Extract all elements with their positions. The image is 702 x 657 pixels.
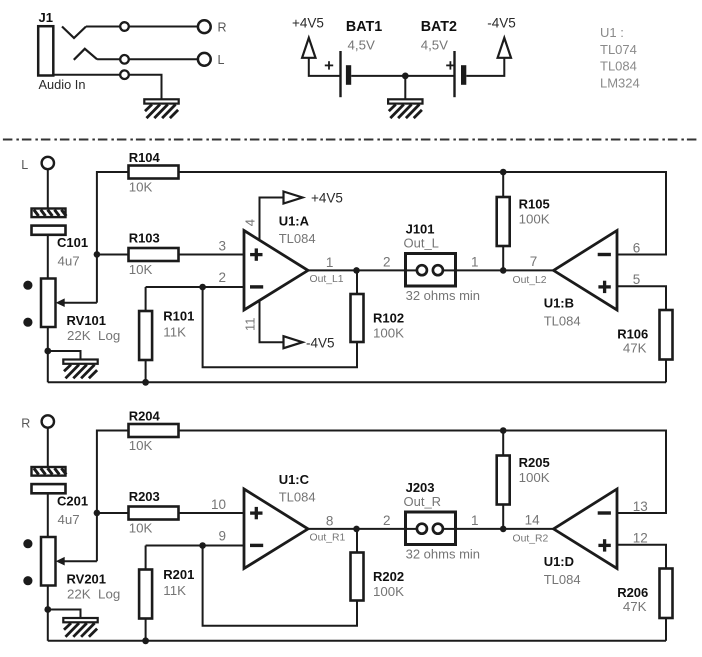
capacitor C201 lower plate bbox=[32, 484, 66, 493]
wire inverting net to R101 bbox=[145, 287, 147, 311]
junction inverting input bbox=[199, 284, 206, 291]
wire J1 ring to terminal L bbox=[97, 58, 198, 60]
power symbol +4V5 bbox=[302, 38, 315, 58]
J1 pin R bbox=[120, 22, 129, 31]
svg-text:11K: 11K bbox=[163, 583, 186, 598]
wire J203 to op-amp U1:D bbox=[456, 528, 554, 530]
svg-text:9: 9 bbox=[218, 529, 226, 544]
dash-dot separator line bbox=[3, 139, 697, 141]
resistor R101 bbox=[139, 311, 152, 360]
BAT2 plus sign bbox=[446, 64, 454, 66]
resistor R102 bbox=[351, 294, 364, 342]
svg-text:TL084: TL084 bbox=[600, 59, 637, 74]
ground at RV101 bbox=[63, 360, 97, 364]
svg-text:10: 10 bbox=[211, 497, 226, 512]
potentiometer RV101 wiper arrow bbox=[61, 302, 97, 304]
J1 ring contact L bbox=[74, 49, 97, 60]
svg-text:10K: 10K bbox=[129, 180, 153, 195]
junction battery center bbox=[402, 73, 409, 80]
svg-text:R202: R202 bbox=[373, 569, 404, 584]
svg-text:2: 2 bbox=[383, 255, 391, 270]
wire R203 to op-amp pin 10 bbox=[179, 512, 245, 514]
svg-text:14: 14 bbox=[525, 512, 541, 527]
svg-text:Out_L2: Out_L2 bbox=[513, 275, 547, 286]
svg-text:7: 7 bbox=[530, 254, 538, 269]
svg-text:R106: R106 bbox=[617, 327, 648, 342]
wire inverting input net bbox=[146, 545, 244, 547]
svg-text:12: 12 bbox=[633, 531, 648, 546]
svg-text:TL084: TL084 bbox=[544, 314, 581, 329]
capacitor C101 hatched plate bbox=[32, 209, 66, 218]
svg-text:+4V5: +4V5 bbox=[292, 16, 324, 31]
svg-text:C201: C201 bbox=[57, 494, 88, 509]
wire input node to R103 bbox=[97, 254, 129, 256]
svg-text:11K: 11K bbox=[163, 325, 186, 340]
junction pot ground branch bbox=[44, 348, 51, 355]
svg-text:U1:C: U1:C bbox=[279, 472, 310, 487]
wire input node to R203 bbox=[97, 512, 129, 514]
power symbol +4V5 at op-amp bbox=[284, 192, 303, 204]
ground at RV201 bbox=[63, 618, 97, 622]
resistor R205 bbox=[497, 456, 510, 505]
op-amp U1:C bbox=[244, 489, 308, 569]
svg-text:R102: R102 bbox=[373, 310, 404, 325]
potentiometer RV201 terminal dot upper bbox=[23, 539, 32, 548]
svg-text:4,5V: 4,5V bbox=[348, 38, 375, 53]
svg-text:R103: R103 bbox=[129, 231, 160, 246]
svg-text:22K Log: 22K Log bbox=[67, 328, 120, 343]
connector J203 pin circle right bbox=[433, 524, 443, 534]
svg-text:L: L bbox=[21, 158, 28, 172]
wire R101 to ground bus bbox=[145, 360, 147, 382]
connector J101 pin circle right bbox=[433, 265, 443, 275]
svg-text:-4V5: -4V5 bbox=[306, 335, 335, 350]
svg-text:R206: R206 bbox=[617, 585, 648, 600]
wire pin 5 to R106 bbox=[617, 286, 666, 310]
svg-text:Out_L1: Out_L1 bbox=[310, 274, 344, 285]
junction output R202 bbox=[353, 526, 360, 533]
svg-text:U1 :: U1 : bbox=[600, 25, 624, 40]
svg-text:4u7: 4u7 bbox=[58, 254, 80, 269]
wire BAT1 to center node bbox=[351, 75, 405, 77]
resistor R206 bbox=[660, 569, 673, 619]
svg-text:+4V5: +4V5 bbox=[311, 191, 343, 206]
svg-text:TL084: TL084 bbox=[279, 231, 316, 246]
svg-text:TL084: TL084 bbox=[279, 490, 316, 505]
wire output junction to R202 bbox=[356, 529, 358, 553]
svg-text:11: 11 bbox=[243, 318, 258, 332]
svg-text:100K: 100K bbox=[519, 470, 550, 485]
resistor R204 bbox=[129, 424, 179, 437]
svg-text:100K: 100K bbox=[519, 212, 550, 227]
svg-text:R104: R104 bbox=[129, 150, 161, 165]
junction input node bbox=[94, 251, 101, 258]
junction output R102 bbox=[353, 267, 360, 274]
wire op-amp pin 11 to -4V5 bbox=[260, 300, 284, 342]
wire top bus R204 to pin 13 bbox=[179, 431, 667, 514]
ground bus wire bbox=[48, 381, 666, 383]
battery BAT2 positive plate bbox=[453, 51, 455, 97]
wire input node up to R204 bbox=[97, 431, 129, 513]
svg-text:4u7: 4u7 bbox=[58, 512, 80, 527]
wire R105 to output node bbox=[502, 172, 504, 270]
junction inverting input bbox=[199, 542, 206, 549]
wire R201 to ground bus bbox=[145, 619, 147, 641]
svg-text:13: 13 bbox=[633, 499, 648, 514]
wire op-amp output to J203 bbox=[308, 528, 406, 530]
wire inverting input net bbox=[146, 286, 244, 288]
junction pot ground branch bbox=[44, 606, 51, 613]
svg-text:R201: R201 bbox=[163, 567, 194, 582]
wire J1 tip to terminal R bbox=[86, 26, 198, 28]
terminal R input circle bbox=[42, 415, 54, 427]
svg-text:3: 3 bbox=[218, 239, 226, 254]
ground at battery bbox=[388, 99, 422, 103]
wire op-amp output to J101 bbox=[308, 269, 406, 271]
wire center node to BAT2 bbox=[405, 75, 454, 77]
svg-text:Out_L: Out_L bbox=[404, 235, 439, 250]
svg-text:LM324: LM324 bbox=[600, 75, 640, 90]
svg-text:-4V5: -4V5 bbox=[487, 16, 516, 31]
junction top bus R105 bbox=[500, 169, 507, 176]
potentiometer RV101 terminal dot lower bbox=[23, 318, 32, 327]
svg-text:J1: J1 bbox=[39, 10, 53, 25]
power symbol -4V5 at op-amp bbox=[284, 336, 303, 348]
svg-text:BAT2: BAT2 bbox=[421, 19, 457, 35]
svg-text:RV101: RV101 bbox=[67, 313, 107, 328]
svg-text:L: L bbox=[218, 53, 225, 67]
svg-text:4,5V: 4,5V bbox=[421, 38, 448, 53]
wire to channel ground symbol bbox=[48, 610, 81, 619]
potentiometer RV101 body bbox=[41, 279, 56, 328]
wire into J203 bbox=[406, 528, 417, 530]
junction input node bbox=[94, 510, 101, 517]
J1 pin L bbox=[120, 55, 129, 64]
resistor R203 bbox=[129, 507, 179, 520]
svg-text:5: 5 bbox=[633, 272, 641, 287]
battery BAT1 positive plate bbox=[339, 51, 341, 97]
wire wiper to input node bus bbox=[96, 513, 98, 561]
resistor R104 bbox=[129, 166, 179, 179]
svg-text:47K: 47K bbox=[623, 599, 647, 614]
connector J1 body bbox=[38, 26, 53, 75]
wire C201 to RV201 bbox=[47, 493, 49, 537]
svg-text:Out_R2: Out_R2 bbox=[513, 533, 549, 544]
svg-text:R101: R101 bbox=[163, 309, 194, 324]
svg-text:10K: 10K bbox=[129, 262, 153, 277]
svg-text:BAT1: BAT1 bbox=[346, 19, 382, 35]
wire into J101 bbox=[406, 269, 417, 271]
svg-text:32 ohms min: 32 ohms min bbox=[406, 547, 480, 562]
BAT1 plus sign bbox=[325, 64, 333, 66]
resistor R105 bbox=[497, 197, 510, 246]
wire RV201 bottom to ground bus bbox=[47, 586, 49, 641]
terminal L bbox=[198, 53, 211, 66]
potentiometer RV201 wiper arrow bbox=[61, 560, 97, 562]
junction top bus R205 bbox=[500, 427, 507, 434]
wire op-amp pin 4 to +4V5 bbox=[260, 198, 284, 241]
svg-text:1: 1 bbox=[326, 255, 334, 270]
wire top bus R104 to pin 6 bbox=[179, 172, 667, 255]
wire inverting node down and under op-amp bbox=[203, 546, 357, 626]
terminal R bbox=[198, 20, 211, 33]
wire R103 to op-amp pin 3 bbox=[179, 254, 245, 256]
J1 tip contact R bbox=[62, 27, 86, 39]
potentiometer RV201 body bbox=[41, 537, 56, 586]
svg-text:1: 1 bbox=[471, 255, 479, 270]
svg-text:22K Log: 22K Log bbox=[67, 587, 120, 602]
svg-text:32 ohms min: 32 ohms min bbox=[406, 288, 480, 303]
potentiometer RV201 terminal dot lower bbox=[23, 576, 32, 585]
svg-text:Out_R1: Out_R1 bbox=[310, 533, 346, 544]
svg-text:RV201: RV201 bbox=[67, 572, 107, 587]
svg-text:R203: R203 bbox=[129, 489, 160, 504]
wire out of J203 bbox=[443, 528, 456, 530]
svg-text:R: R bbox=[21, 417, 30, 431]
svg-text:100K: 100K bbox=[373, 325, 404, 340]
svg-text:U1:A: U1:A bbox=[279, 214, 310, 229]
wire output junction to R102 bbox=[356, 270, 358, 294]
resistor R201 bbox=[139, 570, 152, 619]
svg-text:Out_R: Out_R bbox=[404, 494, 442, 509]
svg-text:R205: R205 bbox=[519, 455, 550, 470]
svg-text:10K: 10K bbox=[129, 438, 153, 453]
wire to channel ground symbol bbox=[48, 351, 81, 360]
wire J1 sleeve bbox=[53, 75, 161, 100]
junction R201 ground bus bbox=[142, 637, 149, 644]
svg-text:100K: 100K bbox=[373, 584, 404, 599]
wire center node to ground bbox=[404, 76, 406, 99]
resistor R202 bbox=[351, 553, 364, 601]
wire inverting node down and under op-amp bbox=[203, 287, 357, 367]
ground at J1 bbox=[144, 99, 178, 103]
connector J203 body bbox=[406, 512, 456, 545]
svg-text:47K: 47K bbox=[623, 341, 647, 356]
junction R101 ground bus bbox=[142, 379, 149, 386]
svg-text:2: 2 bbox=[383, 513, 391, 528]
junction R205 output node bbox=[500, 526, 507, 533]
terminal L input circle bbox=[42, 157, 54, 169]
svg-text:8: 8 bbox=[326, 514, 334, 529]
ground bus wire bbox=[48, 640, 666, 642]
connector J203 pin circle left bbox=[417, 524, 427, 534]
svg-text:1: 1 bbox=[471, 513, 479, 528]
wire R206 to ground bus bbox=[665, 618, 667, 641]
wire input to C201 bbox=[47, 428, 49, 467]
svg-text:TL074: TL074 bbox=[600, 42, 637, 57]
capacitor C101 lower plate bbox=[32, 226, 66, 235]
battery BAT2 negative plate bbox=[461, 65, 466, 85]
wire +4V5 to BAT1 bbox=[309, 58, 341, 76]
wire R106 to ground bus bbox=[665, 360, 667, 383]
svg-text:R204: R204 bbox=[129, 409, 161, 424]
op-amp U1:D bbox=[554, 489, 618, 569]
capacitor C201 hatched plate bbox=[32, 467, 66, 476]
connector J101 pin circle left bbox=[417, 265, 427, 275]
battery BAT1 negative plate bbox=[346, 65, 351, 85]
wire BAT2 to -4V5 bbox=[466, 58, 504, 76]
svg-text:Audio In: Audio In bbox=[39, 77, 86, 92]
wire J101 to op-amp U1:B bbox=[456, 269, 554, 271]
wire out of J101 bbox=[443, 269, 456, 271]
svg-text:10K: 10K bbox=[129, 521, 153, 536]
wire R205 to output node bbox=[502, 431, 504, 529]
svg-text:R105: R105 bbox=[519, 197, 550, 212]
svg-text:U1:B: U1:B bbox=[544, 296, 574, 311]
power symbol -4V5 bbox=[498, 38, 511, 58]
svg-text:R: R bbox=[218, 21, 227, 35]
wire input to C101 bbox=[47, 169, 49, 208]
op-amp U1:A bbox=[244, 231, 308, 311]
wire wiper to input node bus bbox=[96, 254, 98, 302]
wire inverting net to R201 bbox=[145, 546, 147, 570]
svg-text:TL084: TL084 bbox=[544, 572, 581, 587]
resistor R106 bbox=[660, 310, 673, 360]
potentiometer RV101 terminal dot upper bbox=[23, 281, 32, 290]
J1 pin sleeve bbox=[120, 70, 129, 79]
connector J101 body bbox=[406, 254, 456, 287]
svg-text:6: 6 bbox=[633, 240, 641, 255]
junction R105 output node bbox=[500, 267, 507, 274]
wire input node up to R104 bbox=[97, 172, 129, 254]
svg-text:U1:D: U1:D bbox=[544, 554, 574, 569]
svg-text:C101: C101 bbox=[57, 235, 88, 250]
wire RV101 bottom to ground bus bbox=[47, 327, 49, 382]
resistor R103 bbox=[129, 248, 179, 261]
wire C101 to RV101 bbox=[47, 235, 49, 279]
wire pin 12 to R206 bbox=[617, 545, 666, 569]
op-amp U1:B bbox=[554, 231, 618, 311]
svg-text:4: 4 bbox=[243, 219, 258, 226]
svg-text:2: 2 bbox=[218, 270, 226, 285]
